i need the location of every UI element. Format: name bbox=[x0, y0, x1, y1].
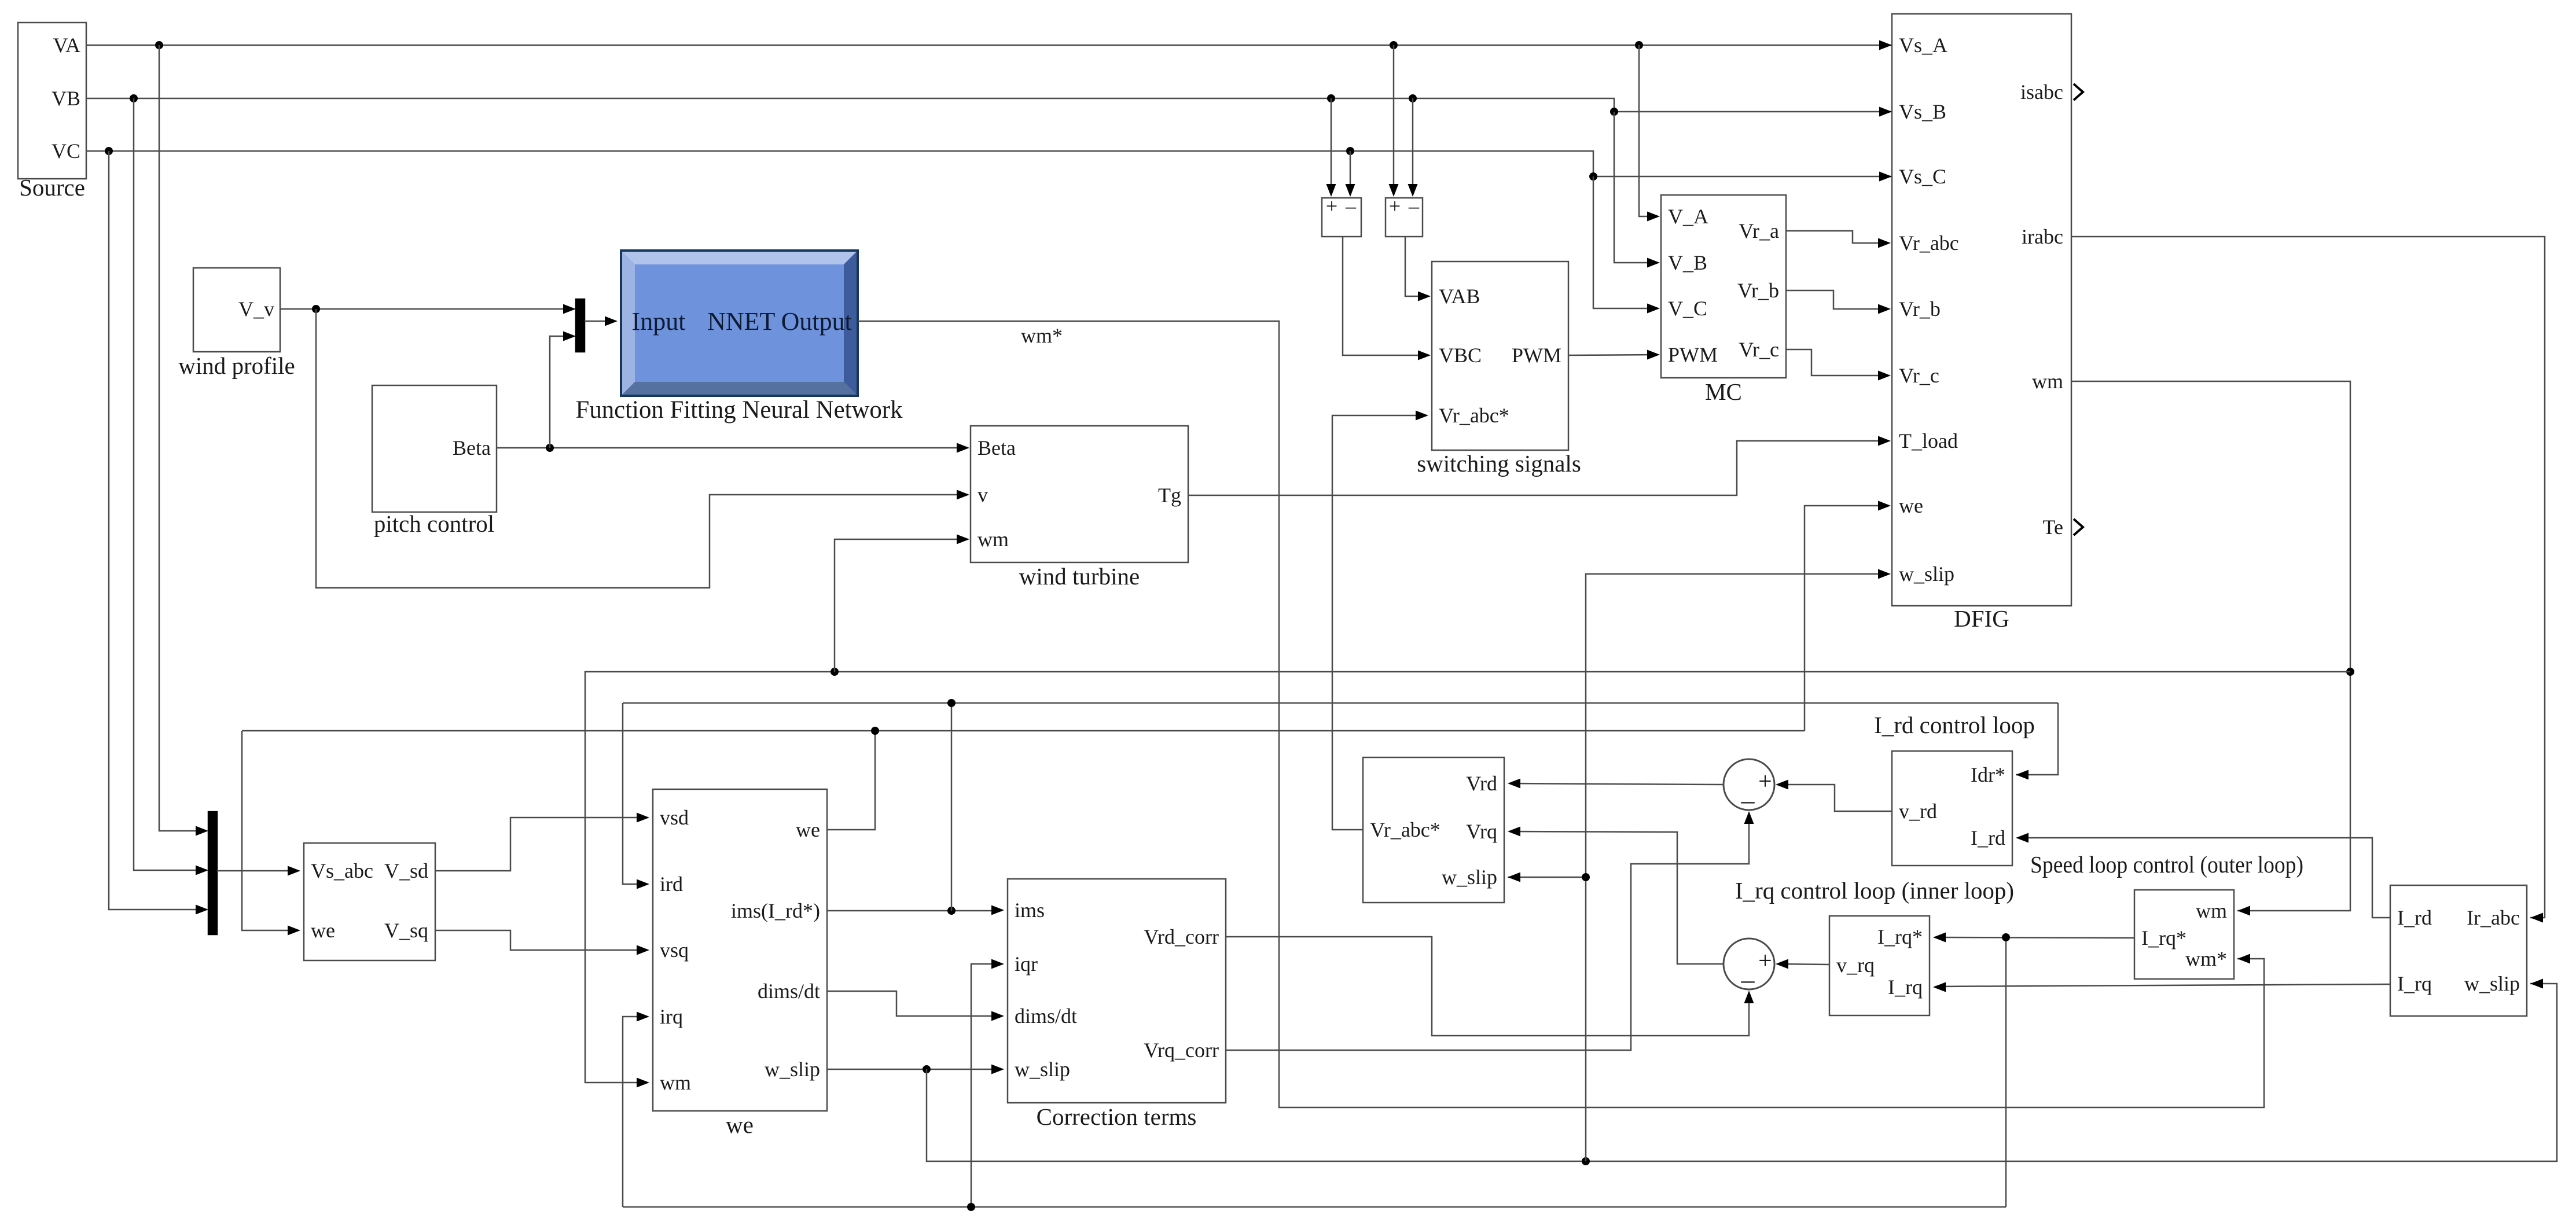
svg-text:irq: irq bbox=[660, 1005, 683, 1028]
block wind turbine bbox=[971, 426, 1188, 590]
wire V_v branch to wind turbine v bbox=[316, 309, 969, 588]
svg-text:–: – bbox=[1741, 785, 1755, 815]
svg-text:dims/dt: dims/dt bbox=[1015, 1004, 1077, 1028]
svg-text:w_slip: w_slip bbox=[765, 1058, 820, 1081]
wire V_v to mux1 bbox=[280, 304, 576, 314]
svg-text:Vs_A: Vs_A bbox=[1899, 34, 1947, 57]
svg-text:VC: VC bbox=[52, 139, 80, 163]
svg-text:I_rd control loop: I_rd control loop bbox=[1874, 712, 2035, 738]
wire V_sd to we block vsd bbox=[435, 813, 649, 871]
wire VC branch into sum S1 bbox=[1346, 151, 1355, 197]
wire VA from Source to DFIG Vs_A bbox=[86, 41, 1892, 50]
svg-text:we: we bbox=[796, 818, 820, 841]
block Ir_abc (dq to abc rotor currents) bbox=[2390, 885, 2527, 1016]
block Source (three-phase source) bbox=[18, 23, 86, 201]
svg-text:NNET Output: NNET Output bbox=[707, 307, 852, 336]
wire w_slip to Correction terms bbox=[827, 1065, 1004, 1074]
block U1 Function Fitting Neural Network (blue 3D) bbox=[576, 251, 903, 424]
svg-text:Beta: Beta bbox=[978, 436, 1016, 459]
sum circle A2 (Vrq = v_rq - Vrd_corr) bbox=[1724, 938, 1774, 994]
svg-text:we: we bbox=[1899, 494, 1923, 517]
svg-text:w_slip: w_slip bbox=[2464, 972, 2520, 995]
wire irabc from DFIG to Ir_abc block bbox=[2071, 237, 2545, 923]
svg-text:I_rq*: I_rq* bbox=[1877, 925, 1923, 948]
svg-text:I_rq control loop (inner loop): I_rq control loop (inner loop) bbox=[1735, 877, 2014, 904]
wire w_slip riser to Vr_abc* and DFIG w_slip bbox=[1508, 569, 1891, 1162]
block I_rd control loop bbox=[1874, 712, 2035, 866]
mux for Vs_abc inputs bbox=[208, 812, 217, 934]
wire Vrq_corr to sum circle A1 bbox=[1226, 811, 1754, 1050]
wire wm from DFIG to Speed loop wm bbox=[2071, 381, 2354, 916]
svg-text:Vr_c: Vr_c bbox=[1739, 338, 1779, 361]
block I_rq control loop bbox=[1735, 877, 2014, 1015]
svg-text:VAB: VAB bbox=[1439, 285, 1480, 308]
svg-text:+: + bbox=[1758, 948, 1772, 974]
svg-text:w_slip: w_slip bbox=[1442, 866, 1497, 889]
wire I_rq* bus along bottom to we irq and Correction iqr bbox=[623, 937, 2006, 1211]
svg-text:Vrd_corr: Vrd_corr bbox=[1144, 925, 1219, 948]
svg-text:–: – bbox=[1345, 194, 1357, 218]
wire I_rq from Ir_abc block to I_rq control loop bbox=[1933, 982, 2390, 992]
wire VA branch to MC V_A bbox=[1639, 45, 1660, 222]
wire Vr_b from MC to DFIG Vr_b bbox=[1786, 290, 1891, 314]
sum block S2 (VA-VB) bbox=[1386, 194, 1423, 237]
block Correction terms bbox=[1008, 879, 1226, 1130]
svg-text:+: + bbox=[1758, 768, 1772, 795]
svg-text:I_rd: I_rd bbox=[1971, 826, 2005, 849]
svg-text:wind profile: wind profile bbox=[178, 352, 295, 379]
svg-text:irabc: irabc bbox=[2022, 225, 2063, 248]
wire VC from Source to DFIG Vs_C bbox=[86, 147, 1892, 182]
svg-text:PWM: PWM bbox=[1668, 343, 1718, 366]
svg-text:Speed loop control (outer loop: Speed loop control (outer loop) bbox=[2030, 851, 2303, 878]
svg-text:Input: Input bbox=[632, 307, 686, 336]
svg-text:pitch control: pitch control bbox=[374, 510, 494, 537]
wire wm branch to wind turbine wm bbox=[835, 535, 969, 672]
svg-text:Vr_abc*: Vr_abc* bbox=[1370, 818, 1440, 841]
wire mux1 output to NNET Input bbox=[585, 316, 618, 326]
svg-text:w_slip: w_slip bbox=[1015, 1058, 1070, 1081]
wire VB branch into sum S2 bbox=[1408, 98, 1418, 197]
wire mux2 output to Vs_abc bbox=[217, 866, 300, 876]
wire VC branch to MC V_C bbox=[1593, 176, 1660, 314]
wire VA branch into sum S2 bbox=[1389, 45, 1399, 197]
svg-text:–: – bbox=[1408, 194, 1420, 218]
svg-text:v_rq: v_rq bbox=[1836, 954, 1875, 977]
block pitch control bbox=[372, 385, 497, 537]
wire VB branch into sum S1 bbox=[1326, 98, 1336, 197]
output chevron isabc (unconnected) bbox=[2074, 84, 2083, 100]
wire w_slip bus along bottom to Ir_abc w_slip bbox=[927, 979, 2557, 1166]
wire Vrd from sum circle A1 to Vr_abc* block bbox=[1508, 779, 1724, 789]
svg-text:V_C: V_C bbox=[1668, 297, 1707, 320]
svg-text:Ir_abc: Ir_abc bbox=[2467, 906, 2520, 929]
svg-text:v: v bbox=[978, 483, 988, 506]
wire Tg from wind turbine to DFIG T_load bbox=[1188, 436, 1891, 496]
svg-text:iqr: iqr bbox=[1015, 952, 1038, 976]
block Vs_abc / V_sd V_sq transform bbox=[304, 843, 435, 960]
wire V_sq to we block vsq bbox=[435, 930, 649, 955]
mux for NNET inputs bbox=[576, 299, 585, 352]
wire PWM from switching signals to MC bbox=[1568, 350, 1660, 360]
svg-text:ims: ims bbox=[1015, 899, 1045, 922]
svg-text:ims(I_rd*): ims(I_rd*) bbox=[731, 899, 820, 922]
svg-text:Vrq: Vrq bbox=[1466, 820, 1497, 843]
wire I_rd from Ir_abc block to I_rd control loop bbox=[2016, 833, 2390, 918]
wire dims/dt to Correction terms bbox=[827, 991, 1004, 1021]
svg-text:VB: VB bbox=[52, 87, 80, 110]
wire VB branch down to mux2 input 2 bbox=[134, 98, 208, 875]
wire Vr_abc* output up to switching signals bbox=[1332, 411, 1428, 830]
svg-text:Vr_a: Vr_a bbox=[1739, 219, 1779, 242]
output chevron Te (unconnected) bbox=[2074, 519, 2083, 535]
wire Vrd_corr to sum circle A2 bbox=[1226, 937, 1754, 1036]
svg-text:Vr_b: Vr_b bbox=[1899, 297, 1941, 321]
svg-text:w_slip: w_slip bbox=[1899, 562, 1954, 586]
svg-text:wm: wm bbox=[2196, 899, 2227, 922]
wire sum S2 output to switching signals VAB bbox=[1405, 237, 1431, 301]
svg-text:vsd: vsd bbox=[660, 806, 689, 829]
wire Vrq from sum circle A2 to Vr_abc* block bbox=[1508, 827, 1724, 965]
svg-text:we: we bbox=[726, 1111, 754, 1138]
svg-text:VA: VA bbox=[53, 34, 80, 57]
block wind profile bbox=[178, 268, 295, 379]
sum block S1 (VB-VC) bbox=[1322, 194, 1361, 237]
wire wm* from NNET output to Speed loop wm* bbox=[858, 321, 2264, 1107]
svg-text:Vr_c: Vr_c bbox=[1899, 364, 1939, 387]
wire I_rq* from Speed loop to I_rq control loop bbox=[1933, 933, 2134, 943]
svg-text:MC: MC bbox=[1705, 378, 1742, 405]
svg-text:v_rd: v_rd bbox=[1899, 800, 1937, 823]
wire ims bus to we ird and I_rd loop Idr* bbox=[623, 699, 2058, 911]
svg-text:V_B: V_B bbox=[1668, 251, 1707, 274]
svg-text:wm*: wm* bbox=[2185, 947, 2227, 970]
wire v_rd to sum circle A1 plus input bbox=[1776, 780, 1892, 812]
svg-text:V_sq: V_sq bbox=[384, 919, 428, 942]
svg-text:Vs_C: Vs_C bbox=[1899, 165, 1946, 188]
svg-text:Vs_abc: Vs_abc bbox=[311, 859, 373, 882]
wire Vr_c from MC to DFIG Vr_c bbox=[1786, 349, 1891, 381]
svg-text:I_rq*: I_rq* bbox=[2141, 926, 2187, 949]
svg-text:isabc: isabc bbox=[2020, 80, 2063, 104]
wire we bus to Vs_abc we and DFIG we bbox=[242, 501, 1891, 936]
wire VA branch down to mux2 input 1 bbox=[159, 45, 208, 836]
svg-text:wm*: wm* bbox=[1021, 324, 1063, 347]
wire Vr_a from MC to DFIG Vr_abc bbox=[1786, 231, 1891, 248]
sum circle A1 (Vrd = v_rd - Vrq_corr) bbox=[1724, 759, 1774, 815]
svg-text:PWM: PWM bbox=[1512, 344, 1561, 367]
svg-text:Vr_abc*: Vr_abc* bbox=[1439, 404, 1509, 427]
svg-text:vsq: vsq bbox=[660, 938, 689, 962]
svg-text:Vr_abc: Vr_abc bbox=[1899, 231, 1959, 255]
svg-text:switching signals: switching signals bbox=[1417, 450, 1581, 477]
wire v_rq to sum circle A2 plus input bbox=[1776, 959, 1829, 969]
block Vr_abc* (dq to abc reference) bbox=[1363, 757, 1504, 903]
wire VC branch down to mux2 input 3 bbox=[109, 151, 208, 915]
wire ims(I_rd*) to Correction terms ims bbox=[827, 906, 1004, 915]
label wm* bbox=[1021, 324, 1063, 347]
wire we output riser bbox=[827, 731, 875, 830]
svg-text:dims/dt: dims/dt bbox=[758, 980, 820, 1003]
wire VB from Source to DFIG Vs_B bbox=[86, 94, 1892, 117]
svg-text:I_rd: I_rd bbox=[2397, 906, 2432, 929]
svg-text:Correction terms: Correction terms bbox=[1037, 1103, 1197, 1130]
svg-text:V_v: V_v bbox=[238, 297, 274, 321]
svg-text:Beta: Beta bbox=[453, 436, 491, 459]
wire Beta branch to mux1 bbox=[550, 332, 576, 448]
svg-text:T_load: T_load bbox=[1899, 429, 1958, 452]
svg-text:wm: wm bbox=[978, 528, 1009, 551]
block DFIG (doubly-fed induction generator) bbox=[1892, 14, 2071, 632]
svg-text:VBC: VBC bbox=[1439, 344, 1482, 367]
svg-text:wm: wm bbox=[660, 1071, 691, 1094]
wire wm bus to we block wm bbox=[585, 668, 2350, 1088]
svg-text:+: + bbox=[1326, 194, 1337, 218]
svg-text:wind turbine: wind turbine bbox=[1019, 563, 1140, 590]
svg-text:Vrd: Vrd bbox=[1466, 772, 1497, 795]
svg-text:Vs_B: Vs_B bbox=[1899, 100, 1946, 123]
block MC (matrix converter) bbox=[1661, 195, 1786, 405]
svg-text:DFIG: DFIG bbox=[1954, 605, 2009, 632]
svg-text:+: + bbox=[1389, 194, 1401, 218]
block Speed loop control bbox=[2030, 851, 2303, 979]
svg-text:Tg: Tg bbox=[1158, 484, 1181, 507]
svg-text:–: – bbox=[1741, 965, 1755, 994]
svg-text:Te: Te bbox=[2043, 516, 2063, 539]
svg-text:Idr*: Idr* bbox=[1971, 763, 2005, 786]
svg-text:Function Fitting Neural Networ: Function Fitting Neural Network bbox=[576, 396, 903, 424]
svg-text:I_rq: I_rq bbox=[1888, 976, 1923, 999]
svg-text:ird: ird bbox=[660, 873, 683, 896]
svg-text:Source: Source bbox=[19, 174, 85, 201]
wire sum S1 output to switching signals VBC bbox=[1343, 237, 1431, 360]
wire VB branch to MC V_B bbox=[1614, 112, 1660, 268]
svg-text:V_A: V_A bbox=[1668, 205, 1708, 228]
svg-text:Vr_b: Vr_b bbox=[1737, 279, 1779, 302]
svg-text:wm: wm bbox=[2032, 370, 2063, 393]
svg-text:we: we bbox=[311, 919, 335, 942]
svg-text:Vrq_corr: Vrq_corr bbox=[1144, 1039, 1219, 1062]
block we (stator flux / speed estimator) bbox=[653, 789, 827, 1138]
block switching signals bbox=[1417, 262, 1581, 477]
svg-text:I_rq: I_rq bbox=[2397, 972, 2432, 995]
wire Beta from pitch control to wind turbine bbox=[497, 443, 969, 453]
svg-text:V_sd: V_sd bbox=[384, 859, 428, 882]
